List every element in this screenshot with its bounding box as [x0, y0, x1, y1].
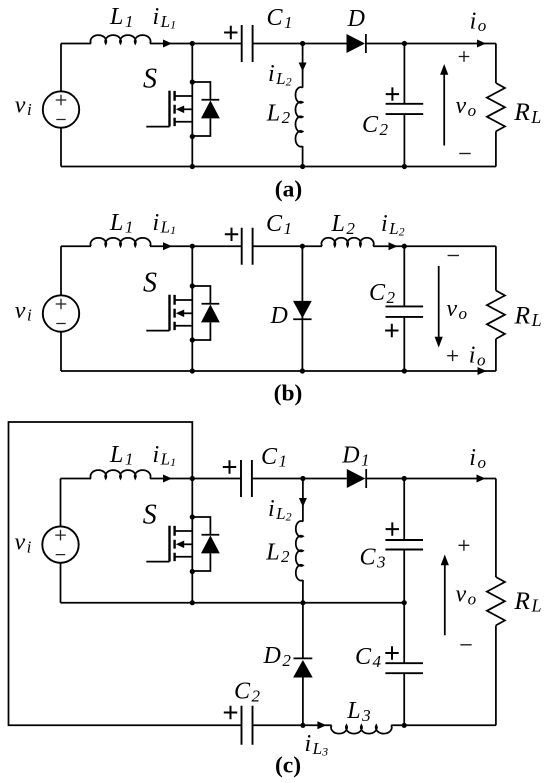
wire (c) C2 to L3: [253, 724, 332, 726]
junction node S-bottom (b): [190, 368, 195, 373]
inductor L1 (c): [90, 470, 150, 478]
junction node L2-D2-middle (c): [300, 600, 305, 605]
wire (a) switch branch vertical: [191, 44, 193, 167]
wire (c) middle rail: [61, 602, 405, 604]
current arrow i_o (c): [477, 475, 486, 483]
polarity + of v_o (a): [459, 51, 470, 62]
diode D2 (c): [293, 658, 313, 677]
junction node D2-L3 (c): [300, 723, 305, 728]
polarity + of v_o (c): [459, 540, 470, 551]
svg-text:S: S: [143, 64, 157, 95]
junction node L1-S-C1 (b): [190, 244, 195, 249]
capacitor C1 (c): [241, 460, 252, 497]
wire (a) L2 branch lower: [302, 146, 304, 166]
junction node drain (b): [190, 283, 195, 288]
wire (c) D1 to right corner: [365, 478, 496, 480]
voltage arrow v_o (a): [440, 64, 448, 146]
resistor R_L (b): [487, 291, 505, 339]
junction node D1-C3 (c): [402, 476, 407, 481]
junction node C4-L3 (c): [402, 723, 407, 728]
polarity + of C2 (c): [224, 706, 237, 719]
junction node source (a): [190, 134, 195, 139]
wire (b) left rail upper: [60, 246, 62, 295]
voltage arrow v_o (b): [435, 266, 443, 348]
junction node L2-bottom (a): [300, 164, 305, 169]
inductor L2 (a): [295, 87, 302, 147]
wire (a) right rail lower: [495, 131, 497, 166]
capacitor C3 (c): [385, 540, 423, 550]
svg-text:D: D: [270, 303, 288, 329]
transistor S (a) with body diode: [146, 82, 220, 136]
junction node D-C2 (a): [402, 41, 407, 46]
wire (a) top rail left segment: [61, 43, 91, 45]
wire (c) outer feedback loop: [9, 422, 242, 725]
wire (a) C2 branch lower: [403, 114, 405, 166]
wire (c) D2 branch upper: [302, 603, 304, 659]
wire (b) L1 to C1: [150, 245, 242, 247]
capacitor C2 (b): [386, 306, 424, 317]
capacitor C1 (b): [242, 228, 253, 265]
polarity + at output (b): [447, 350, 458, 361]
wire (b) C2 branch lower: [403, 317, 405, 371]
wire (c) L1 to C1: [150, 478, 241, 480]
transistor S (c) with body diode: [146, 517, 220, 571]
wire (b) top rail left segment: [61, 245, 91, 247]
capacitor C1 (a): [242, 25, 253, 62]
junction node drain (c): [190, 514, 195, 519]
current arrow i_L2 (c): [299, 498, 307, 507]
current arrow i_L3 (c): [317, 721, 326, 729]
wire (c) right rail lower: [495, 625, 497, 725]
wire (b) diode branch: [301, 246, 303, 371]
junction node source (c): [190, 569, 195, 574]
wire (c) L2 branch upper: [302, 479, 304, 522]
svg-text:(b): (b): [274, 381, 303, 407]
svg-text:S: S: [143, 499, 157, 530]
wire (a) D to right corner: [365, 43, 496, 45]
wire (c) L2 branch lower: [302, 580, 304, 603]
wire (a) L1 to C1: [150, 43, 242, 45]
junction node L1-S-C1 (c): [190, 476, 195, 481]
wire (a) C2 branch upper: [403, 44, 405, 104]
wire (c) D2 branch lower: [302, 678, 304, 726]
junction node C2-bottom (a): [402, 164, 407, 169]
current arrow i_L1 (c): [163, 475, 172, 483]
wire (a) left rail lower: [60, 128, 62, 167]
junction node drain (a): [190, 79, 195, 84]
wire (b) C2 branch upper: [403, 246, 405, 306]
junction node C1-D1-L2 (c): [300, 476, 305, 481]
wire (a) L2 branch upper: [302, 44, 304, 88]
wire (c) L3 to right rail: [391, 724, 496, 726]
wire (b) left rail lower: [60, 332, 62, 371]
inductor L1 (a): [90, 35, 150, 43]
wire (a) left rail upper: [60, 44, 62, 92]
junction node L1-S-C1 (a): [190, 41, 195, 46]
inductor L2 (b): [321, 238, 373, 246]
wire (b) right rail lower: [495, 339, 497, 371]
resistor R_L (a): [487, 83, 505, 131]
svg-text:(c): (c): [275, 752, 301, 778]
diode D (b): [293, 301, 312, 319]
voltage source v_i (b): [43, 295, 79, 331]
wire (c) top rail left segment: [61, 478, 92, 480]
junction node C1-D-L2 (b): [300, 244, 305, 249]
wire (a) C1 to D: [253, 43, 347, 45]
junction node S-middle (c): [190, 600, 195, 605]
wire (b) C1 to L2: [253, 245, 322, 247]
wire (a) bottom rail: [61, 166, 496, 168]
current arrow i_L1 (b): [163, 242, 172, 250]
wire (a) right rail upper: [495, 44, 497, 84]
polarity + of C2 (b): [385, 324, 398, 337]
wire (c) C4 branch lower: [403, 673, 405, 725]
wire (c) right rail upper: [495, 479, 497, 578]
junction node D-bottom (b): [300, 368, 305, 373]
wire (c) C3 branch upper: [403, 479, 405, 541]
diode D (a): [347, 34, 366, 53]
polarity + of C3 (c): [386, 522, 399, 535]
voltage arrow v_o (c): [441, 555, 449, 636]
current arrow i_o (b): [478, 367, 487, 375]
transistor S (b) with body diode: [146, 286, 220, 340]
junction node source (b): [190, 337, 195, 342]
polarity - of v_o (c): [460, 644, 471, 646]
polarity + of C1 (b): [225, 228, 238, 241]
current arrow i_L2 (b): [389, 242, 398, 250]
junction node S-bottom (a): [190, 164, 195, 169]
wire (b) bottom rail: [61, 370, 496, 372]
svg-text:S: S: [143, 268, 157, 299]
polarity + of C4 (c): [385, 646, 398, 659]
voltage source v_i (a): [43, 91, 79, 127]
wire (c) left rail lower: [60, 563, 62, 603]
wire (c) left rail upper: [60, 479, 62, 527]
wire (c) C3 branch lower: [403, 550, 405, 603]
polarity - of v_o (b): [448, 255, 459, 257]
junction node C3-C4-middle (c): [402, 600, 407, 605]
polarity + of C1 (c): [223, 460, 236, 473]
svg-text:(a): (a): [275, 176, 302, 202]
resistor R_L (c): [487, 577, 505, 625]
capacitor C2 (a): [386, 104, 424, 114]
current arrow i_o (a): [477, 40, 486, 48]
wire (b) L2 to output node: [373, 245, 496, 247]
polarity + of C2 (a): [386, 87, 399, 100]
junction node C2-bottom (b): [402, 368, 407, 373]
wire (b) switch branch vertical: [191, 246, 193, 371]
wire (c) switch branch vertical: [191, 479, 193, 603]
current arrow i_L2 (a): [299, 63, 307, 72]
junction node L2-C2 (b): [402, 244, 407, 249]
inductor L3 (c): [331, 725, 392, 733]
capacitor C2 (c): [242, 706, 253, 745]
wire (b) right rail upper: [495, 246, 497, 290]
polarity + of C1 (a): [224, 26, 237, 39]
diode D1 (c): [347, 469, 366, 488]
wire (c) C1 to D1: [252, 478, 347, 480]
voltage source v_i (c): [42, 526, 78, 562]
capacitor C4 (c): [385, 663, 423, 673]
svg-text:D: D: [347, 6, 365, 32]
wire (c) C4 branch upper: [403, 603, 405, 664]
inductor L1 (b): [90, 238, 150, 246]
inductor L2 (c): [296, 521, 303, 580]
current arrow i_L1 (a): [163, 40, 172, 48]
junction node C1-D-L2 (a): [300, 41, 305, 46]
polarity - of v_o (a): [459, 153, 470, 155]
